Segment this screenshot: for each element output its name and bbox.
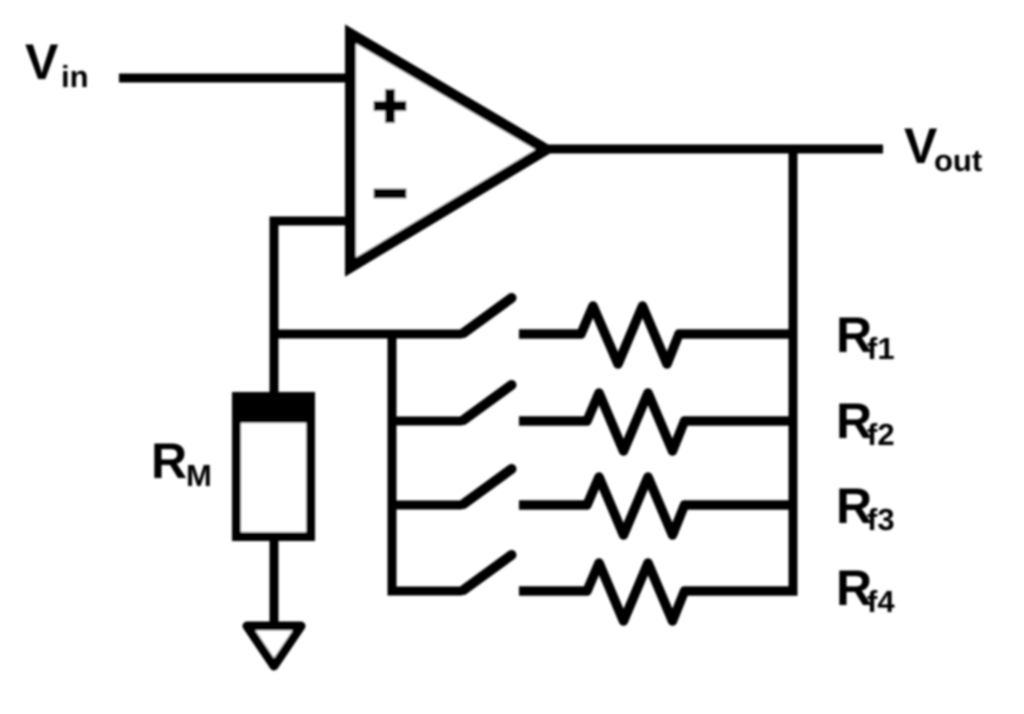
svg-text:f4: f4 [867, 584, 895, 619]
svg-text:V: V [25, 34, 59, 90]
svg-text:V: V [904, 118, 938, 174]
svg-text:f2: f2 [867, 417, 895, 452]
svg-text:M: M [186, 458, 212, 493]
svg-text:in: in [61, 59, 89, 94]
svg-text:out: out [934, 143, 982, 178]
svg-text:R: R [151, 433, 187, 489]
svg-text:f3: f3 [867, 502, 895, 537]
svg-text:f1: f1 [867, 331, 895, 366]
